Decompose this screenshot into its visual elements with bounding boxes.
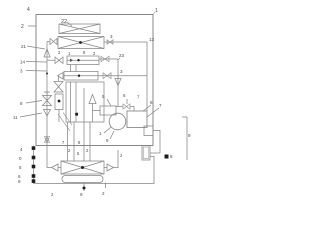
svg-text:14: 14	[20, 60, 26, 65]
svg-text:7: 7	[62, 140, 65, 145]
junction node on left pipe	[46, 73, 48, 75]
valve on HX right wire	[107, 40, 113, 45]
svg-text:2: 2	[102, 191, 105, 196]
sensor (black square) on center pipe	[75, 113, 78, 116]
svg-text:1: 1	[68, 51, 71, 56]
svg-text:2: 2	[86, 148, 89, 153]
leader wires crossing down-right	[58, 113, 72, 132]
svg-text:11: 11	[13, 115, 18, 120]
svg-text:6: 6	[83, 50, 86, 55]
svg-text:2: 2	[58, 50, 61, 55]
service valve arrow on left pipe bottom	[45, 137, 50, 143]
svg-text:21: 21	[21, 44, 27, 49]
drain pan (rounded)	[62, 176, 103, 183]
left branch pipe down from rect2	[58, 76, 60, 81]
leaders above four-way valve	[107, 99, 127, 106]
wire rect2 right to suction node	[98, 75, 147, 77]
internal pipes in center rect	[71, 82, 85, 122]
svg-text:7: 7	[137, 95, 140, 100]
arrow into rect2 left	[58, 73, 64, 80]
wire from outdoor HX right to node	[104, 41, 147, 43]
pipe from left into indoor HX with arrow	[47, 146, 51, 168]
svg-text:9: 9	[80, 192, 83, 197]
svg-text:0: 0	[19, 156, 22, 161]
svg-text:2: 2	[21, 24, 24, 30]
accumulator (horizontal tank)	[127, 111, 147, 128]
svg-text:5: 5	[102, 94, 105, 99]
svg-text:4: 4	[20, 147, 23, 152]
solenoid valve body (small rect with dot)	[55, 94, 63, 110]
four-way valve 15	[100, 106, 116, 115]
field pipe down to indoor unit	[34, 157, 155, 184]
svg-text:3: 3	[110, 34, 113, 39]
svg-text:9: 9	[188, 133, 191, 138]
field piping loop right of box	[150, 131, 160, 154]
svg-text:2: 2	[51, 192, 54, 197]
expansion valve hourglass on branch	[54, 82, 63, 93]
svg-text:9: 9	[106, 138, 109, 143]
expansion valve left of subcooler	[47, 59, 55, 61]
svg-text:5: 5	[19, 165, 22, 170]
subcooler heat exchanger 12 (upper small rect)	[67, 56, 99, 65]
svg-text:4: 4	[27, 7, 30, 13]
sensor black square on field pipe	[165, 155, 169, 159]
wire four-way left port	[93, 110, 101, 112]
flow arrow down on left pipe	[44, 110, 51, 117]
svg-text:23: 23	[119, 53, 125, 58]
sensor squares	[32, 146, 36, 150]
svg-text:3: 3	[120, 69, 123, 74]
flow arrow up center	[89, 95, 96, 104]
check valve left of outdoor HX	[47, 41, 50, 43]
svg-text:8: 8	[78, 140, 81, 145]
suction pipe vertical right	[146, 42, 148, 111]
svg-text:13: 13	[149, 37, 155, 42]
svg-text:2: 2	[93, 51, 96, 56]
service valve A (gas)	[144, 126, 153, 136]
svg-text:8: 8	[170, 154, 173, 159]
leaders to compressor	[104, 127, 114, 139]
leader wire to fan	[67, 22, 72, 26]
svg-text:8: 8	[20, 101, 23, 106]
outdoor fan F (crossed rectangle)	[59, 24, 100, 34]
pipe below drain pan with sensor dot	[83, 183, 85, 192]
connecting pipes between subcooler passes	[71, 65, 77, 72]
svg-text:2: 2	[120, 153, 123, 158]
pipes to indoor unit	[68, 122, 91, 161]
flow arrow down on gas pipe	[115, 79, 121, 86]
expansion valve 14 (hourglass) on left pipe	[43, 92, 52, 106]
check valve on that wire	[103, 73, 111, 79]
svg-text:3: 3	[20, 69, 23, 74]
flow arrow up on left pipe	[44, 49, 50, 57]
wire subcooler right	[99, 58, 118, 60]
leaders from accumulator up right	[143, 105, 159, 117]
svg-text:6: 6	[123, 93, 126, 98]
left pipe (liquid line) vertical	[46, 42, 48, 146]
service valve B (liquid, double walled)	[142, 146, 150, 161]
svg-text:5: 5	[77, 151, 80, 156]
second leader below indoor HX	[105, 183, 107, 189]
svg-text:1: 1	[99, 131, 102, 136]
valve on that wire	[101, 56, 109, 61]
svg-text:2: 2	[68, 148, 71, 153]
indoor heat exchanger 5 (crossed rectangle)	[61, 161, 104, 174]
center piping rectangle	[66, 82, 104, 122]
svg-text:7: 7	[159, 103, 162, 108]
svg-text:1: 1	[155, 8, 158, 14]
outdoor unit enclosure box 1	[36, 15, 153, 146]
valve between four-way and accumulator	[116, 106, 123, 108]
connection piping leader line 19	[182, 117, 187, 160]
left sensor pipe below box	[33, 146, 35, 184]
vertical gas pipe to four-way valve	[117, 59, 119, 106]
internal heat exchanger 2nd small rect	[64, 72, 98, 81]
outdoor heat exchanger 2 (crossed rectangle)	[58, 37, 104, 49]
pipe out of indoor HX right with arrow	[104, 167, 107, 169]
leader for label 21 on left border	[28, 25, 36, 27]
compressor circle	[109, 113, 126, 130]
svg-text:9: 9	[18, 179, 21, 184]
